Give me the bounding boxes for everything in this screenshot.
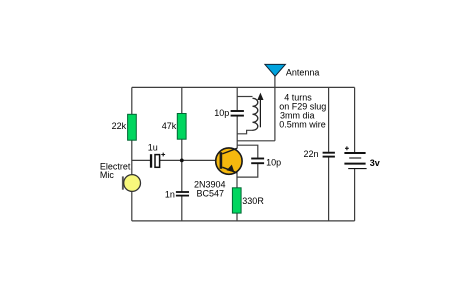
svg-text:22k: 22k [112,121,127,131]
svg-text:330R: 330R [242,196,264,206]
svg-text:10p: 10p [266,157,281,167]
wire: collector tank line from rail to 10p cap [236,87,238,110]
svg-text:BC547: BC547 [197,188,225,198]
node: base junction dot [180,159,184,163]
resistor 47k [177,114,186,140]
label: coil note text [279,93,326,130]
wire: feedback cap bottom to emitter node [237,164,258,177]
wire: 1n cap to bottom rail [181,196,183,221]
wire: top supply rail [132,86,355,88]
wire: base wire mic node to 1u cap [132,159,150,161]
transistor Q1 2N3904/BC547 [216,148,242,174]
inductor L1 4 turns coil [253,98,258,130]
wire: 22k bottom through mic to bottom rail [131,140,133,221]
wire: emitter to 330R [236,172,238,188]
wire: tank cap to collector [236,116,238,149]
svg-text:Mic: Mic [100,170,114,180]
capacitor 1u electrolytic [150,153,165,168]
svg-text:1n: 1n [165,190,175,200]
capacitor 22n [323,153,335,157]
battery 3v [344,146,366,168]
capacitor 10p feedback [251,159,264,164]
svg-text:0.5mm wire: 0.5mm wire [279,120,326,130]
svg-text:1u: 1u [148,142,158,152]
slug adjustment arrow [257,93,263,128]
wire: left branch from rail to 22k top [131,87,133,114]
resistor 330R [232,188,241,213]
wire: 1u cap to transistor base [160,159,220,161]
svg-text:3v: 3v [370,158,380,168]
svg-text:Antenna: Antenna [286,68,320,78]
svg-text:10p: 10p [214,108,229,118]
wire: antenna lead down [274,75,276,140]
wire: coil top connection [237,96,252,98]
capacitor 1n [176,192,189,196]
svg-text:47k: 47k [162,121,177,131]
microphone electret mic [122,175,141,192]
wire: collector to feedback cap top [237,145,258,157]
wire: 47k branch from rail to resistor [181,87,183,113]
antenna [265,64,286,76]
wire: 330R to bottom rail [236,213,238,221]
wire: battery branch from rail [354,87,356,152]
label: Electret Mic [100,162,131,181]
capacitor 10p tank [231,111,244,116]
wire: coil bottom step connection [237,130,252,134]
wire: 22n cap to bottom rail [328,157,330,221]
wire: bottom ground rail [132,220,355,222]
wire: antenna to collector node [237,140,275,142]
svg-text:22n: 22n [304,149,319,159]
wire: 47k bottom to base node [181,139,183,160]
resistor 22k [128,114,137,140]
wire: 22n branch from rail [328,87,330,151]
wire: 1n branch from base node down [181,160,183,191]
wire: battery to bottom rail [354,169,356,221]
